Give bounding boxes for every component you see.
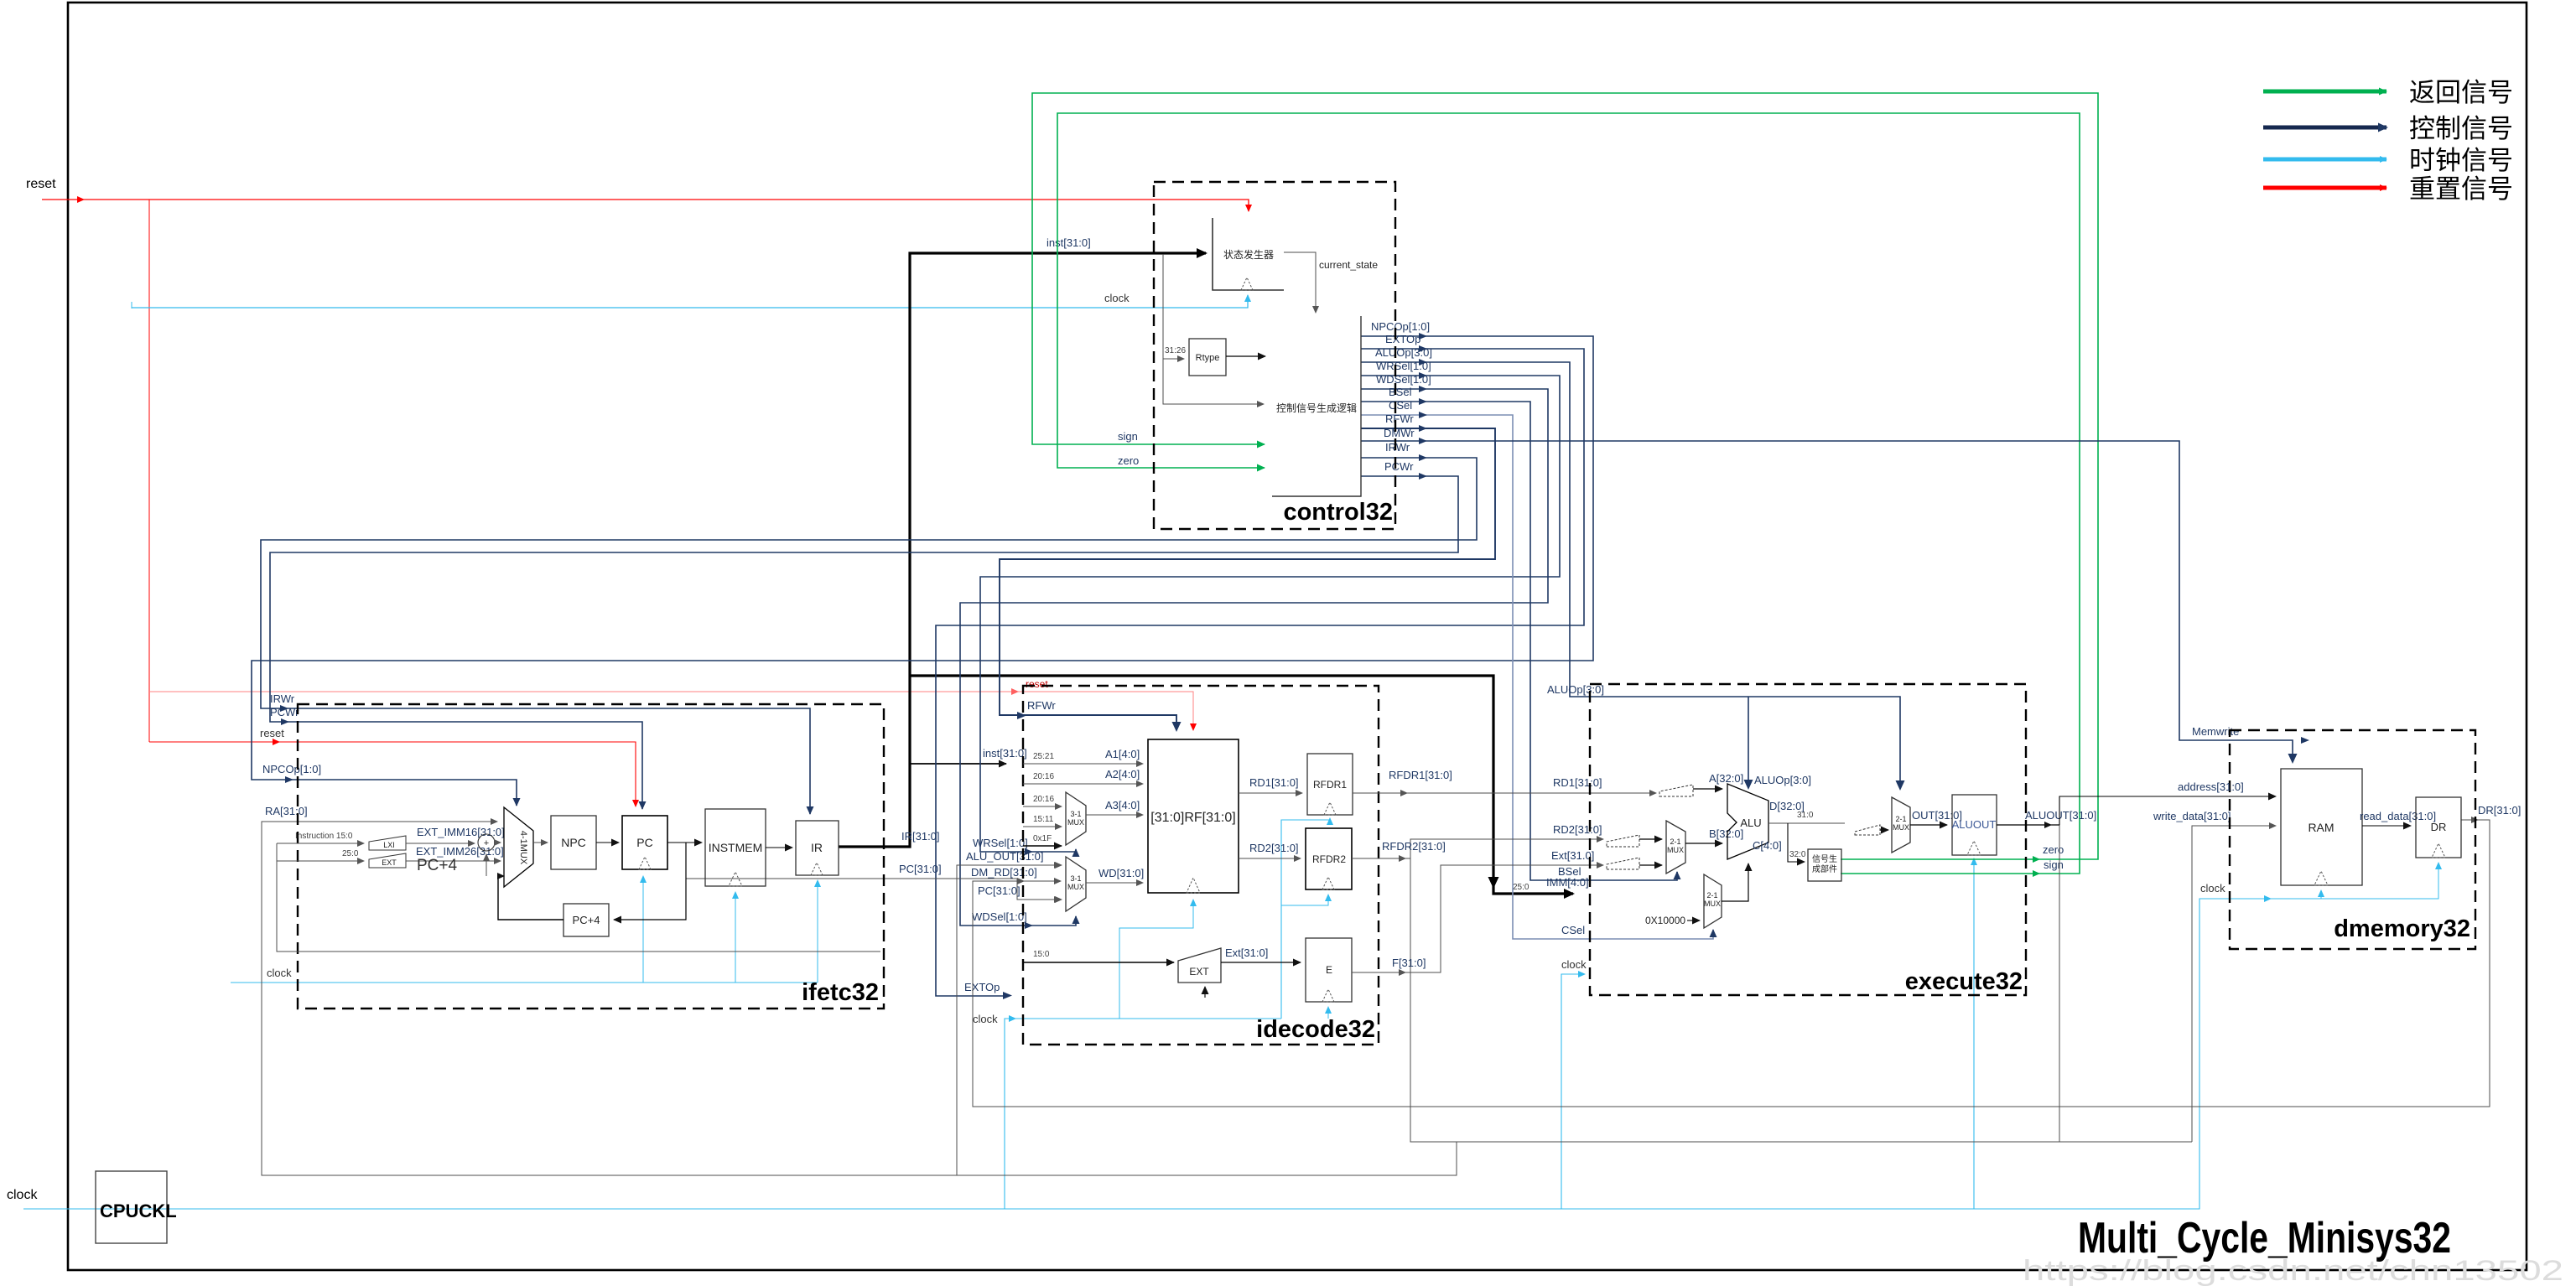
- svg-text:31:26: 31:26: [1165, 346, 1186, 355]
- svg-text:25:0: 25:0: [342, 849, 359, 858]
- wire PCWr route: [270, 476, 1458, 809]
- component ALUOUT register: [1952, 795, 1997, 855]
- wire PC to INSTMEM: [667, 842, 702, 843]
- component 4-1MUX: [504, 807, 533, 887]
- svg-text:PC[31:0]: PC[31:0]: [978, 884, 1021, 897]
- wire EXTOp route: [936, 349, 1584, 996]
- wire clock arrow dmemory entry: [2264, 895, 2272, 902]
- svg-text:B[32:0]: B[32:0]: [1709, 827, 1743, 840]
- wire clock riser to INSTMEM: [735, 892, 736, 983]
- svg-text:BSel: BSel: [1389, 386, 1412, 398]
- wire mux1 in2 15:11: [1023, 826, 1062, 827]
- wire clock to DR: [2289, 863, 2438, 899]
- component NPC box: [551, 816, 596, 869]
- wire WDSel route: [960, 389, 1548, 926]
- wire RFWr route: [1000, 428, 1495, 730]
- wire PC output down to PC+4: [614, 843, 686, 920]
- wire RFDR1 out to execute A: [1353, 792, 1656, 794]
- wire adder to mux: [495, 842, 501, 843]
- wire CSel route: [1361, 415, 1713, 939]
- svg-text:DMWr: DMWr: [1384, 427, 1415, 439]
- component INSTMEM box: [705, 809, 766, 886]
- wire WD to RF: [1086, 882, 1143, 884]
- svg-text:RA[31:0]: RA[31:0]: [265, 805, 308, 817]
- svg-text:20:16: 20:16: [1033, 772, 1054, 781]
- wire A1 25:21: [1023, 763, 1143, 765]
- component IR box: [796, 821, 839, 875]
- svg-text:CSel: CSel: [1561, 924, 1585, 936]
- wire clock idecode branch to E: [1327, 1007, 1329, 1019]
- component signal generator box: [1808, 849, 1841, 881]
- wire EXT_IMM16 to adder: [406, 843, 475, 844]
- component C mux 2-1: [1704, 874, 1722, 928]
- wire clock main bottom rail: [23, 899, 2289, 1209]
- svg-text:0x1F: 0x1F: [1033, 834, 1052, 843]
- svg-text:address[31:0]: address[31:0]: [2178, 780, 2244, 793]
- wire instruction 15:0 to LXI: [277, 843, 364, 844]
- svg-text:ifetc32: ifetc32: [802, 979, 879, 1006]
- svg-text:A2[4:0]: A2[4:0]: [1105, 768, 1140, 780]
- wire PC+4 tap up into adder: [486, 854, 487, 876]
- wire read_data to DR: [2362, 825, 2411, 827]
- svg-text:clock: clock: [267, 967, 292, 979]
- component EXT extender: [369, 853, 406, 868]
- wire inst bus to execute IMM (thick): [910, 676, 1573, 894]
- svg-text:IR[31:0]: IR[31:0]: [901, 830, 940, 843]
- wire WD mux in3 PC: [1061, 899, 1062, 900]
- svg-text:2-1: 2-1: [1706, 891, 1717, 900]
- svg-text:ALU: ALU: [1740, 817, 1761, 829]
- wire OUT mux to ALUOUT: [1910, 824, 1947, 826]
- component LXI extender: [369, 836, 406, 850]
- block ifetc32 border: [298, 704, 884, 1009]
- component RFDR1 register: [1307, 754, 1353, 815]
- svg-text:时钟信号: 时钟信号: [2409, 146, 2513, 175]
- svg-text:clock: clock: [1104, 292, 1130, 304]
- wire clock idecode branch to RFDR2: [1281, 894, 1328, 905]
- wire reset top rail to control32: [42, 200, 1249, 211]
- svg-text:RD2[31:0]: RD2[31:0]: [1553, 823, 1602, 836]
- wire reset branch to ifetc PC: [149, 742, 636, 806]
- wire RD2 latch to BMUX: [1639, 838, 1662, 840]
- svg-text:sign: sign: [2044, 858, 2064, 871]
- wire BSel arrow at control output: [1419, 398, 1427, 405]
- svg-text:NPCOp[1:0]: NPCOp[1:0]: [1371, 320, 1430, 333]
- svg-text:NPCOp[1:0]: NPCOp[1:0]: [262, 763, 321, 775]
- component B RD2 latch: [1607, 835, 1639, 847]
- svg-text:15:0: 15:0: [1033, 950, 1050, 959]
- wire clock ifetc rail: [231, 982, 818, 983]
- wire mux1 in1 20:16: [1023, 806, 1062, 807]
- wire EXT bottom stub arrow: [1204, 987, 1206, 998]
- component adder circle: [478, 834, 495, 851]
- wire reset branch arrow into idecode: [1011, 688, 1019, 695]
- wire NPCOp route: [252, 336, 1593, 806]
- wire clock idecode branch to RF: [1119, 900, 1193, 1019]
- svg-text:dmemory32: dmemory32: [2334, 915, 2470, 942]
- svg-text:4-1MUX: 4-1MUX: [518, 831, 528, 865]
- wire green sign arrow at execute exit: [2033, 870, 2040, 877]
- wire NPCOp arrow entering ifetc: [285, 776, 293, 783]
- svg-text:ALUOUT: ALUOUT: [1952, 818, 1997, 831]
- wire ALUOUT arrow: [2044, 822, 2052, 828]
- svg-text:clock: clock: [1561, 958, 1587, 971]
- svg-text:WD[31:0]: WD[31:0]: [1098, 867, 1144, 879]
- wire E out to execute Ext: [1352, 865, 1603, 972]
- wire IRWr route: [261, 458, 1477, 814]
- wire RFDR2 out to execute B: [1352, 839, 1603, 858]
- component A latch: [1659, 785, 1693, 796]
- component ALU: [1727, 784, 1768, 859]
- svg-text:RAM: RAM: [2308, 821, 2334, 834]
- svg-text:Ext[31.0]: Ext[31.0]: [1551, 849, 1594, 862]
- wire instruction feedback vertical: [277, 843, 880, 952]
- wire Ext latch to BMUX: [1639, 864, 1662, 866]
- svg-text:MUX: MUX: [1067, 818, 1084, 827]
- svg-text:C[4:0]: C[4:0]: [1753, 839, 1782, 852]
- component WD mux 3-1: [1066, 857, 1086, 911]
- svg-text:WRSel[1:0]: WRSel[1:0]: [1376, 360, 1431, 372]
- legend control signal (navy): [2263, 114, 2513, 143]
- svg-text:execute32: execute32: [1905, 968, 2023, 995]
- svg-text:A[32:0]: A[32:0]: [1709, 772, 1743, 785]
- svg-text:LXI: LXI: [383, 841, 395, 849]
- svg-text:31:0: 31:0: [1797, 811, 1814, 820]
- block execute32 border: [1590, 684, 2026, 995]
- svg-text:ALUOUT[31:0]: ALUOUT[31:0]: [2025, 809, 2096, 822]
- svg-text:WDSel[1:0]: WDSel[1:0]: [1376, 373, 1431, 386]
- wire RFWr arrow at idecode entry: [1017, 712, 1026, 719]
- wire address into RAM: [2059, 796, 2276, 825]
- svg-text:状态发生器: 状态发生器: [1223, 248, 1274, 261]
- svg-text:PC+4: PC+4: [573, 914, 600, 926]
- svg-text:返回信号: 返回信号: [2409, 78, 2513, 107]
- wire Ext to E: [1221, 962, 1301, 963]
- svg-text:ALUOp[3:0]: ALUOp[3:0]: [1547, 683, 1604, 696]
- svg-text:https://blog.csdn.net/chn13502: https://blog.csdn.net/chn13502: [2023, 1255, 2563, 1286]
- svg-text:3-1: 3-1: [1070, 810, 1081, 818]
- svg-text:2-1: 2-1: [1895, 815, 1906, 823]
- svg-text:RD2[31:0]: RD2[31:0]: [1249, 842, 1299, 854]
- component E register: [1306, 938, 1352, 1002]
- svg-text:RFWr: RFWr: [1385, 412, 1414, 425]
- wire E out arrow: [1399, 969, 1406, 976]
- wire clock riser ALUOUT: [1973, 858, 1975, 1209]
- wire write_data vertical: [2192, 826, 2276, 1142]
- svg-text:read_data[31:0]: read_data[31:0]: [2360, 810, 2436, 822]
- component D latch: [1855, 825, 1880, 835]
- svg-text:MUX: MUX: [1893, 823, 1909, 832]
- svg-text:RFDR2: RFDR2: [1312, 853, 1346, 865]
- svg-text:EXT: EXT: [1189, 966, 1209, 977]
- wire 15:0 to EXT: [1023, 962, 1174, 963]
- wire NPC to PC: [596, 842, 619, 843]
- svg-text:zero: zero: [2043, 843, 2064, 856]
- svg-text:Instruction 15:0: Instruction 15:0: [295, 832, 353, 841]
- wire green zero loop: [1032, 93, 2098, 859]
- svg-text:E: E: [1326, 964, 1332, 976]
- block dmemory32 border: [2230, 730, 2475, 949]
- svg-text:sign: sign: [1118, 430, 1138, 443]
- svg-text:RFDR1: RFDR1: [1313, 779, 1347, 791]
- wire IRWr arrow at control output: [1419, 454, 1427, 461]
- wire reset vertical drop x178: [148, 200, 150, 742]
- legend return signal (green): [2263, 78, 2513, 107]
- block CPUCKL box: [96, 1171, 177, 1243]
- svg-text:成部件: 成部件: [1812, 863, 1837, 874]
- svg-text:clock: clock: [2200, 882, 2225, 894]
- wire clock idecode riser to RFDR1: [1281, 818, 1330, 1019]
- wire RFDR2 out arrow: [1399, 855, 1406, 862]
- svg-text:25:0: 25:0: [1513, 883, 1529, 892]
- wire EXT_IMM26 to mux: [406, 860, 501, 862]
- wire EXTOp arrow at control output: [1419, 345, 1427, 352]
- svg-text:信号生: 信号生: [1812, 853, 1837, 864]
- svg-text:A3[4:0]: A3[4:0]: [1105, 799, 1140, 812]
- svg-text:RFDR1[31:0]: RFDR1[31:0]: [1389, 769, 1452, 781]
- svg-text:Rtype: Rtype: [1196, 353, 1220, 363]
- svg-text:RFDR2[31:0]: RFDR2[31:0]: [1382, 840, 1446, 853]
- wire clock riser to PC: [642, 876, 644, 983]
- wire ALUOp branch into ALU: [1748, 697, 1749, 788]
- svg-text:PCWr: PCWr: [270, 706, 299, 718]
- svg-text:zero: zero: [1118, 454, 1139, 467]
- wire D branch to signal unit: [1788, 823, 1805, 862]
- svg-text:EXTOp: EXTOp: [1385, 333, 1420, 345]
- wire EXTOp arrow at idecode entry: [1003, 992, 1012, 999]
- svg-text:DR: DR: [2431, 821, 2447, 833]
- wire gray rail ALUOUT loopback: [1410, 825, 2059, 1142]
- svg-text:reset: reset: [260, 727, 284, 739]
- wire RFWr arrow at control output: [1419, 425, 1427, 432]
- wire CSel arrow at control output: [1419, 412, 1427, 418]
- wire inst tap to Rtype: [1163, 358, 1184, 360]
- svg-text:reset: reset: [26, 177, 56, 191]
- wire Rtype output: [1226, 355, 1265, 357]
- wire IMM corner arrowhead: [1488, 877, 1499, 889]
- svg-text:EXT_IMM26[31:0]: EXT_IMM26[31:0]: [416, 845, 504, 858]
- wire PC+4 arrow into mux: [497, 873, 505, 879]
- svg-text:15:11: 15:11: [1033, 815, 1054, 824]
- wire inst bus IR output (thick): [839, 253, 1206, 847]
- svg-text:reset: reset: [1026, 678, 1048, 690]
- svg-text:PC+4: PC+4: [417, 857, 457, 874]
- svg-text:控制信号: 控制信号: [2409, 114, 2513, 143]
- wire PC[31:0] to idecode: [686, 879, 1061, 900]
- svg-text:BSel: BSel: [1558, 865, 1581, 878]
- legend clock signal (cyan): [2263, 146, 2513, 175]
- svg-text:RFWr: RFWr: [1027, 699, 1056, 712]
- svg-text:write_data[31:0]: write_data[31:0]: [2153, 810, 2231, 822]
- wire mux to NPC: [533, 842, 548, 843]
- wire PC+4 loop to mux: [498, 876, 563, 920]
- svg-text:inst[31:0]: inst[31:0]: [983, 747, 1027, 760]
- svg-text:NPC: NPC: [561, 836, 586, 849]
- wire clock riser execute: [1561, 974, 1585, 1209]
- svg-text:A1[4:0]: A1[4:0]: [1105, 748, 1140, 760]
- svg-text:WRSel[1:0]: WRSel[1:0]: [973, 837, 1028, 849]
- wire WRSel arrow at control output: [1419, 372, 1427, 379]
- svg-text:current_state: current_state: [1319, 259, 1378, 271]
- wire PCWr arrow at control output: [1419, 473, 1427, 480]
- component OUT mux 2-1: [1892, 797, 1910, 853]
- wire ALU D output: [1768, 822, 1845, 824]
- svg-text:ALU_OUT[31:0]: ALU_OUT[31:0]: [966, 850, 1044, 863]
- svg-text:0X10000: 0X10000: [1645, 915, 1685, 926]
- svg-text:3-1: 3-1: [1070, 874, 1081, 883]
- component B mux 2-1: [1666, 821, 1685, 874]
- component Ext latch: [1607, 858, 1639, 869]
- svg-text:MUX: MUX: [1667, 846, 1684, 854]
- wire RFDR1 out arrow: [1400, 790, 1408, 796]
- wire ALU_OUT return riser to idecode: [957, 865, 1061, 1175]
- wire DMWr route to dmemory: [1361, 441, 2293, 762]
- wire A latch to ALU: [1693, 788, 1722, 790]
- wire D latch to OUT mux: [1880, 829, 1888, 831]
- component PC+4 box: [563, 904, 609, 936]
- wire reset branch to idecode RF: [149, 692, 1193, 730]
- wire reset arrow into ifetc: [273, 739, 280, 745]
- wire WRSel arrow at idecode entry: [1025, 848, 1033, 855]
- wire B mux to ALU: [1685, 843, 1722, 844]
- wire inst bus to idecode: [910, 763, 1006, 765]
- wire current_state: [1284, 252, 1316, 313]
- component DR register: [2416, 797, 2461, 858]
- wire 25:0 to EXT: [277, 860, 364, 862]
- wire clock riser to IR: [817, 880, 818, 983]
- svg-text:IR: IR: [811, 841, 823, 854]
- wire PCWr arrow at ifetc entry: [281, 718, 289, 725]
- svg-text:INSTMEM: INSTMEM: [709, 841, 763, 854]
- wire A2 20:16: [1023, 783, 1143, 785]
- svg-text:idecode32: idecode32: [1256, 1016, 1375, 1043]
- wire WDSel arrow at idecode entry: [1025, 922, 1033, 929]
- svg-text:clock: clock: [973, 1013, 998, 1025]
- svg-text:PCWr: PCWr: [1384, 460, 1414, 473]
- svg-text:DR[31:0]: DR[31:0]: [2478, 804, 2521, 817]
- wire BSel route: [1361, 402, 1677, 880]
- wire 0X10000 input: [1687, 920, 1700, 921]
- wire WDSel arrow at control output: [1419, 386, 1427, 392]
- svg-text:WDSel[1:0]: WDSel[1:0]: [972, 910, 1027, 923]
- wire RD2 to RFDR2: [1239, 858, 1301, 859]
- svg-text:CSel: CSel: [1389, 399, 1412, 412]
- svg-text:+: +: [484, 838, 489, 848]
- wire ALUOUT output to address: [1997, 824, 2059, 826]
- svg-text:2-1: 2-1: [1670, 837, 1680, 846]
- svg-text:[31:0]RF[31:0]: [31:0]RF[31:0]: [1150, 811, 1235, 825]
- wire A3 to RF: [1086, 814, 1143, 816]
- wire gray rail DR to idecode DM_RD: [973, 820, 2490, 1107]
- control logic box: [1272, 316, 1361, 496]
- svg-text:CPUCKL: CPUCKL: [100, 1200, 177, 1221]
- wire RD1 to RFDR1: [1239, 792, 1302, 794]
- svg-text:重置信号: 重置信号: [2409, 174, 2513, 204]
- wire IRWr arrow at ifetc entry: [280, 705, 288, 712]
- svg-text:IMM[4:0]: IMM[4:0]: [1546, 876, 1589, 889]
- svg-text:IRWr: IRWr: [270, 692, 295, 705]
- svg-text:F[31:0]: F[31:0]: [1392, 957, 1426, 969]
- wire inst tap vertical in control: [1163, 254, 1264, 404]
- component A3 mux 3-1: [1066, 792, 1086, 845]
- svg-text:control32: control32: [1283, 499, 1393, 526]
- wire reset arrowhead near left border: [77, 196, 85, 203]
- component PC box: [622, 816, 667, 869]
- svg-text:RD1[31:0]: RD1[31:0]: [1249, 776, 1299, 789]
- svg-text:IRWr: IRWr: [1385, 441, 1410, 454]
- svg-text:EXT: EXT: [382, 858, 397, 867]
- svg-text:EXTOp: EXTOp: [964, 981, 1000, 993]
- wire WD mux in1 ALU_OUT: [1061, 864, 1062, 866]
- svg-text:DM_RD[31:0]: DM_RD[31:0]: [971, 866, 1037, 879]
- component RF register file: [1148, 739, 1239, 893]
- wire C mux to ALU bottom: [1722, 863, 1748, 901]
- svg-text:32:0: 32:0: [1789, 850, 1806, 859]
- wire NPCOp arrow at control output: [1419, 333, 1427, 340]
- wire DR output arrow: [2471, 817, 2479, 823]
- component Rtype box: [1165, 339, 1226, 376]
- svg-text:Memwrite: Memwrite: [2192, 725, 2239, 738]
- wire ALUOp arrow at control output: [1419, 359, 1427, 366]
- wire DM_RD arrow at idecode: [1017, 878, 1025, 884]
- wire gray rail jog to RA rail: [262, 822, 1457, 1175]
- svg-text:20:16: 20:16: [1033, 795, 1054, 804]
- svg-text:PC: PC: [636, 836, 652, 849]
- wire DMWr arrow at control output: [1419, 438, 1427, 444]
- state generator box: [1213, 218, 1284, 290]
- wire Memwrite arrow at dmemory entry: [2301, 737, 2309, 744]
- wire green sign loop: [1057, 113, 2080, 874]
- wire WRSel route: [980, 376, 1560, 852]
- svg-text:ALUOp[3:0]: ALUOp[3:0]: [1375, 346, 1432, 359]
- wire clock to control32: [132, 295, 1248, 308]
- legend reset signal (red): [2263, 174, 2513, 204]
- component RAM: [2281, 769, 2362, 885]
- svg-text:MUX: MUX: [1067, 883, 1084, 891]
- svg-text:RD1[31:0]: RD1[31:0]: [1553, 776, 1602, 789]
- block idecode32 border: [1023, 686, 1379, 1045]
- wire ALUOp route: [1361, 362, 1900, 789]
- svg-text:PC[31:0]: PC[31:0]: [899, 863, 942, 875]
- component RFDR2 register: [1306, 828, 1352, 889]
- svg-text:clock: clock: [7, 1188, 38, 1202]
- svg-text:ALUOp[3:0]: ALUOp[3:0]: [1754, 774, 1811, 786]
- wire mux1 in3 0x1F: [1023, 845, 1062, 847]
- wire green zero arrow at execute exit: [2033, 856, 2040, 863]
- svg-text:MUX: MUX: [1704, 900, 1721, 908]
- wire clock stub tick: [131, 302, 132, 309]
- component EXT sign extender: [1178, 948, 1221, 983]
- wire clock riser to RAM: [2320, 890, 2322, 899]
- svg-text:25:21: 25:21: [1033, 752, 1054, 761]
- wire clock riser idecode: [1005, 1019, 1281, 1209]
- wire INSTMEM to IR: [766, 847, 792, 848]
- block control32 border: [1154, 182, 1395, 529]
- wire rail B extension to write_data: [2059, 1141, 2192, 1143]
- svg-text:Ext[31:0]: Ext[31:0]: [1225, 946, 1268, 959]
- svg-text:inst[31:0]: inst[31:0]: [1046, 236, 1091, 249]
- svg-text:控制信号生成逻辑: 控制信号生成逻辑: [1276, 402, 1357, 414]
